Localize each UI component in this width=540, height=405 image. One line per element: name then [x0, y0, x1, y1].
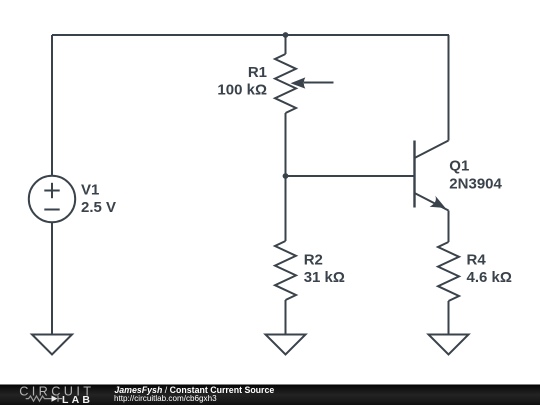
- svg-text:4.6 kΩ: 4.6 kΩ: [467, 269, 512, 286]
- ground (R2): [266, 335, 306, 355]
- wire emitter vertical to R4: [448, 211, 450, 243]
- svg-text:http://circuitlab.com/cb6gxh3: http://circuitlab.com/cb6gxh3: [114, 394, 217, 403]
- label R4 value: [467, 252, 512, 287]
- label V1 value: [81, 181, 116, 216]
- wire R1 top stub: [285, 35, 287, 54]
- voltage source V1: [29, 176, 75, 222]
- wire R2 bottom to ground: [285, 300, 287, 335]
- resistor R2 zigzag: [275, 241, 296, 300]
- resistor R4 zigzag: [438, 242, 459, 301]
- resistor R1 (potentiometer zigzag): [275, 54, 296, 113]
- wire R1 bottom to base node and on to R2: [285, 113, 287, 241]
- label R1 value: [217, 64, 267, 98]
- svg-text:R4: R4: [467, 252, 487, 269]
- svg-text:100 kΩ: 100 kΩ: [217, 82, 267, 99]
- svg-text:R1: R1: [248, 64, 267, 81]
- node junction at top rail: [283, 32, 289, 38]
- wire left vertical (V1 top to top rail): [51, 35, 53, 176]
- wire base horizontal: [286, 175, 415, 177]
- logo resistor squiggle and diode: [26, 396, 63, 402]
- svg-text:31 kΩ: 31 kΩ: [304, 269, 345, 286]
- ground (V1): [32, 335, 72, 355]
- wire top horizontal net: [52, 34, 449, 36]
- svg-text:LAB: LAB: [62, 394, 93, 405]
- svg-text:Q1: Q1: [449, 158, 469, 175]
- node junction at base: [283, 173, 289, 179]
- wire R4 bottom to ground: [448, 301, 450, 335]
- svg-text:R2: R2: [304, 252, 323, 269]
- svg-text:V1: V1: [81, 181, 99, 198]
- wire V1 bottom to ground: [51, 222, 53, 334]
- potentiometer wiper arrow R1: [291, 77, 334, 88]
- ground (R4): [429, 335, 469, 355]
- transistor Q1: [415, 141, 449, 211]
- wire collector vertical: [448, 35, 450, 141]
- label Q1 value: [449, 158, 502, 193]
- svg-text:2.5 V: 2.5 V: [81, 199, 116, 216]
- svg-text:2N3904: 2N3904: [449, 175, 502, 192]
- label R2 value: [304, 252, 345, 287]
